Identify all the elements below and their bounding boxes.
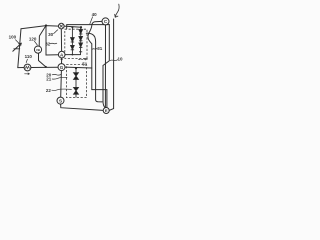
svg-text:32: 32 (45, 41, 51, 46)
svg-text:110: 110 (25, 54, 33, 59)
svg-text:E: E (105, 108, 108, 113)
svg-text:10: 10 (117, 57, 123, 62)
svg-text:21: 21 (46, 76, 52, 81)
svg-text:100: 100 (9, 35, 17, 40)
svg-text:30: 30 (48, 32, 54, 37)
svg-text:40: 40 (92, 12, 98, 17)
svg-text:120: 120 (29, 37, 37, 42)
svg-text:S: S (59, 98, 62, 103)
svg-text:G: G (60, 65, 64, 70)
svg-text:22: 22 (46, 88, 52, 93)
svg-text:31: 31 (97, 46, 103, 51)
svg-text:51: 51 (82, 61, 88, 66)
